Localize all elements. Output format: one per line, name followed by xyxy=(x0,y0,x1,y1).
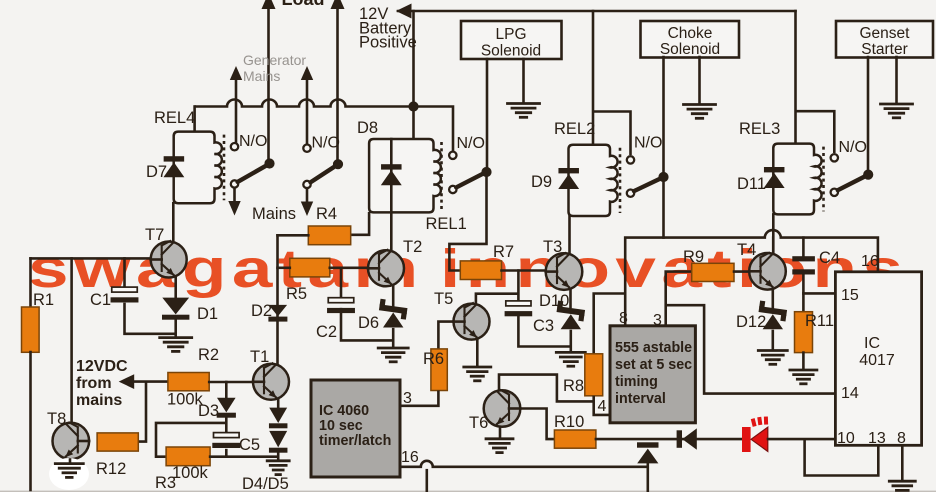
mains arrowhead 2 xyxy=(301,202,313,217)
label C1 xyxy=(90,291,111,309)
label N/O REL4-1 xyxy=(239,133,267,150)
label N/O REL1 xyxy=(457,135,485,152)
capacitor C2 xyxy=(327,298,355,313)
resistor R10 xyxy=(554,430,596,448)
wire choke to REL2 pole riser xyxy=(662,57,665,238)
svg-text:IC: IC xyxy=(864,335,880,352)
diode D2 xyxy=(268,305,287,322)
IC 4060 box xyxy=(311,380,400,477)
label R8 xyxy=(563,377,584,395)
wire R1 bottom xyxy=(29,352,32,490)
svg-text:T8: T8 xyxy=(47,410,66,428)
switch REL3 lower contact xyxy=(831,189,838,196)
IC 4017 box xyxy=(835,272,921,446)
wire genset ground stem xyxy=(895,57,898,104)
wire 12V drop to bus xyxy=(412,11,415,107)
svg-text:REL4: REL4 xyxy=(154,109,195,127)
wire R10 to LED wire xyxy=(596,438,743,441)
svg-text:4017: 4017 xyxy=(859,352,895,369)
wire 4060 pin16 line with hump xyxy=(401,461,648,467)
svg-text:R10: R10 xyxy=(554,413,584,431)
label pin 10 4017 xyxy=(837,430,855,447)
resistor R6 xyxy=(431,349,447,391)
label R1 xyxy=(33,291,54,309)
label T8 xyxy=(47,410,66,428)
wire R1 top xyxy=(29,258,32,308)
label pin 8 4017 xyxy=(897,430,906,447)
label 12VDC from mains xyxy=(76,358,128,409)
label REL4 xyxy=(154,109,195,127)
svg-text:LPG: LPG xyxy=(495,26,526,43)
label D10 xyxy=(539,292,569,310)
label D9 xyxy=(531,173,552,191)
resistor R12 xyxy=(97,433,138,451)
wire R6 bottom to 4060 pin3 xyxy=(401,391,439,406)
switch REL4-1 lower contact xyxy=(231,180,238,187)
resistor R8 xyxy=(585,354,603,396)
wire T7 emitter xyxy=(174,277,177,299)
svg-text:Mains: Mains xyxy=(243,68,280,84)
generator mains arrowhead 2 xyxy=(301,66,313,80)
zener D10 xyxy=(556,301,586,330)
wire load line 1 xyxy=(267,0,270,160)
switch REL4-2 armature xyxy=(311,167,335,183)
label T3 xyxy=(543,238,562,256)
diode D9 xyxy=(558,168,579,189)
ground R11 xyxy=(790,370,817,384)
svg-text:Choke: Choke xyxy=(668,25,713,42)
svg-text:N/O: N/O xyxy=(312,135,340,152)
wire left node horizontal xyxy=(31,257,152,260)
wire C3 bottom xyxy=(518,312,570,347)
diode D7 xyxy=(163,156,184,177)
switch REL1 N/O contact xyxy=(449,152,456,159)
wire R3 to emitter chain xyxy=(210,455,278,458)
ground genset xyxy=(881,104,913,118)
label D7 xyxy=(146,163,167,181)
svg-text:R7: R7 xyxy=(493,243,514,261)
label D1 xyxy=(197,305,218,323)
svg-text:N/O: N/O xyxy=(239,133,267,150)
12V battery arrow xyxy=(396,4,412,19)
wire D5 to ground xyxy=(277,452,280,460)
wire REL2 bottom to T3 collector xyxy=(568,216,571,255)
wire diode D8 line xyxy=(390,139,393,251)
wire C4 bottom to R11 xyxy=(802,275,805,313)
switch REL3 pole dot xyxy=(864,170,873,179)
wire REL4 bottom to T7 collector xyxy=(172,203,175,242)
wire D6 to ground xyxy=(392,329,395,347)
transistor T8 xyxy=(53,423,90,460)
diode D8 xyxy=(381,164,402,185)
transistor T7 xyxy=(151,241,187,278)
node 12V junction dot xyxy=(409,102,418,111)
label pin 3 4060 xyxy=(403,390,412,407)
svg-text:T7: T7 xyxy=(145,226,164,244)
resistor R9 xyxy=(692,263,734,281)
label pin 16 4060 xyxy=(401,449,419,466)
zener D6 xyxy=(378,299,408,328)
switch REL2 N/O contact xyxy=(627,156,634,163)
label R9 xyxy=(683,248,704,266)
wire R5 left xyxy=(278,266,290,269)
diode D1 xyxy=(162,298,189,320)
svg-text:16: 16 xyxy=(401,449,419,466)
svg-text:D2: D2 xyxy=(251,302,272,320)
svg-text:3: 3 xyxy=(653,312,662,329)
label T4 xyxy=(737,241,756,259)
diode D-pulse vertical xyxy=(637,442,659,463)
relay REL4 xyxy=(174,132,224,204)
resistor R3 xyxy=(166,447,210,466)
label pin 3 555 xyxy=(653,312,662,329)
wire D10 to ground xyxy=(569,331,572,352)
label pin 4 555 xyxy=(598,398,607,415)
label 12V Battery Positive xyxy=(359,5,417,52)
relay REL3 xyxy=(773,144,823,215)
svg-text:IC 4060: IC 4060 xyxy=(319,403,369,419)
capacitor C4 xyxy=(792,256,815,274)
switch REL2 armature xyxy=(634,179,661,192)
wire LPG to REL1 pole xyxy=(486,59,489,171)
wire hump drop to bottom xyxy=(425,470,428,492)
label R12 xyxy=(96,460,126,478)
svg-text:R6: R6 xyxy=(423,350,444,368)
diode D11 xyxy=(764,167,785,188)
wire D3 loop to R3 xyxy=(156,423,226,457)
label Generator Mains xyxy=(243,52,306,84)
wire mid rail with hump over T4 collector xyxy=(664,230,878,271)
switch REL4-2 pole dot xyxy=(333,160,342,169)
LED xyxy=(742,417,768,452)
wire load line 2 xyxy=(336,0,339,161)
diode D-series horizontal xyxy=(677,428,697,449)
wire 4017 pin8 to ground xyxy=(901,445,904,480)
svg-text:D8: D8 xyxy=(357,119,378,137)
wire D3 to C5 xyxy=(225,417,228,433)
load arrowhead 2 xyxy=(331,0,345,9)
label D11 xyxy=(737,175,766,193)
label D3 xyxy=(198,402,219,420)
svg-text:100k: 100k xyxy=(172,464,209,482)
transistor T4 xyxy=(749,253,786,290)
wire D12 to ground xyxy=(771,331,774,350)
svg-text:T1: T1 xyxy=(250,348,269,366)
capacitor C5 xyxy=(212,433,240,448)
svg-text:T6: T6 xyxy=(469,414,488,432)
Choke Solenoid box xyxy=(641,21,740,58)
svg-text:T2: T2 xyxy=(403,238,422,256)
wire T5 collector xyxy=(476,294,519,305)
svg-text:set at 5 sec: set at 5 sec xyxy=(615,357,692,373)
wire T4 emitter xyxy=(771,289,774,308)
wire C4 riser top xyxy=(802,238,805,257)
label C5 xyxy=(239,436,260,454)
svg-text:R2: R2 xyxy=(198,346,219,364)
svg-text:C2: C2 xyxy=(316,323,337,341)
label Mains xyxy=(252,205,296,223)
resistor R1 xyxy=(22,307,40,352)
wire R4 left to node xyxy=(278,234,309,237)
svg-text:3: 3 xyxy=(403,390,412,407)
svg-text:12VDC: 12VDC xyxy=(76,358,128,375)
wire C2 bottom xyxy=(341,308,393,341)
label R11 xyxy=(805,312,834,330)
ground D6-C2 xyxy=(378,348,408,362)
wire 12VDC arrow to R2 xyxy=(134,380,168,383)
svg-text:Solenoid: Solenoid xyxy=(481,43,541,60)
svg-text:D7: D7 xyxy=(146,163,167,181)
diode D4 xyxy=(269,408,288,429)
ground T6 xyxy=(486,439,513,453)
svg-text:Solenoid: Solenoid xyxy=(660,41,720,58)
label T2 xyxy=(403,238,422,256)
label pin 13 4017 xyxy=(868,430,886,447)
switch REL3 N/O contact xyxy=(831,154,838,161)
svg-text:timing: timing xyxy=(615,374,658,390)
svg-text:R9: R9 xyxy=(683,248,704,266)
wire 4017 pin13 U-link xyxy=(805,439,879,475)
svg-text:R4: R4 xyxy=(316,205,337,223)
label C3 xyxy=(533,317,554,335)
svg-text:Genset: Genset xyxy=(860,25,911,42)
svg-text:15: 15 xyxy=(841,287,859,304)
watermark swagatam innovations xyxy=(28,238,908,299)
switch REL1 lower contact xyxy=(449,186,456,193)
wire T1 emitter xyxy=(277,399,280,408)
Genset Starter box xyxy=(836,21,933,58)
wire T5 emitter xyxy=(476,339,479,367)
wire R4 right to REL1 box xyxy=(351,212,369,235)
transistor T5 xyxy=(454,303,490,340)
svg-text:D3: D3 xyxy=(198,402,219,420)
label C4 xyxy=(819,249,840,267)
label R5 xyxy=(286,285,307,303)
svg-text:D12: D12 xyxy=(736,313,766,331)
ground D4/D5 xyxy=(267,461,289,475)
svg-text:R8: R8 xyxy=(563,377,584,395)
ground choke xyxy=(684,105,716,119)
wire bus to REL4 coil xyxy=(193,107,196,133)
svg-text:R5: R5 xyxy=(286,285,307,303)
switch REL4-1 armature xyxy=(238,166,267,182)
wire D1 to ground xyxy=(174,320,177,338)
wire R9 to T4 base xyxy=(734,270,750,273)
wire T6 base to R10 xyxy=(521,409,556,440)
ground D12 xyxy=(758,351,787,365)
svg-text:C5: C5 xyxy=(239,436,260,454)
svg-text:D11: D11 xyxy=(737,175,766,193)
wire T6 emitter xyxy=(499,427,502,438)
label pin 8 555 xyxy=(619,310,628,327)
svg-text:mains: mains xyxy=(76,392,122,409)
switch REL4-1 N/O contact xyxy=(231,143,238,150)
label D6 xyxy=(358,314,379,332)
label D12 xyxy=(736,313,766,331)
wire 555 pin3 riser xyxy=(666,272,692,326)
label R7 xyxy=(493,243,514,261)
wire 555 pin3 to 4017 pin14 xyxy=(666,305,836,393)
transistor T3 xyxy=(546,253,583,290)
wire T4 collector xyxy=(772,238,775,254)
wire generator mains line 1 xyxy=(235,76,238,143)
wire R8 to pin8 node xyxy=(594,294,626,354)
wire T3 emitter xyxy=(569,289,572,307)
wire C1 riser xyxy=(123,258,126,288)
svg-text:N/O: N/O xyxy=(839,139,867,156)
zener D12 xyxy=(758,301,788,330)
wire REL1 pole to R7 xyxy=(449,172,486,271)
resistor R11 xyxy=(795,312,813,353)
wire mains arrow 2 xyxy=(306,188,309,207)
ground LPG xyxy=(508,104,540,118)
svg-text:R1: R1 xyxy=(33,291,54,309)
label REL1 xyxy=(426,215,467,233)
label D8 xyxy=(357,119,378,137)
white blob under T8 ground xyxy=(49,458,89,490)
svg-text:555 astable: 555 astable xyxy=(615,340,692,356)
label Load xyxy=(282,0,325,9)
svg-text:13: 13 xyxy=(868,430,886,447)
label R3 xyxy=(155,474,176,492)
wire below vertical diode xyxy=(646,463,649,492)
label C2 xyxy=(316,323,337,341)
switch REL1 armature xyxy=(456,174,483,188)
diode D5 xyxy=(269,431,288,453)
wire T8 emitter xyxy=(69,460,72,464)
svg-text:D9: D9 xyxy=(531,173,552,191)
svg-text:from: from xyxy=(76,375,112,392)
switch REL3 armature xyxy=(838,177,865,191)
wire 12V bus with wire-hop humps xyxy=(195,100,453,152)
label N/O REL4-2 xyxy=(312,135,340,152)
switch REL4-2 N/O contact xyxy=(303,145,310,152)
ground T5 xyxy=(464,367,491,381)
wire C3 riser xyxy=(517,271,520,302)
svg-text:Positive: Positive xyxy=(359,34,417,52)
wire genset to REL3 pole xyxy=(867,57,870,171)
svg-text:interval: interval xyxy=(615,391,666,407)
IC 555 box xyxy=(610,326,695,423)
wire C1 bottom xyxy=(125,303,176,334)
svg-text:T5: T5 xyxy=(434,290,453,308)
svg-text:D6: D6 xyxy=(358,314,379,332)
svg-text:R11: R11 xyxy=(805,312,834,330)
wire D3 drop xyxy=(225,382,228,398)
label T7 xyxy=(145,226,164,244)
svg-text:Generator: Generator xyxy=(243,52,306,68)
capacitor C3 xyxy=(505,301,533,316)
12VDC arrowhead xyxy=(119,374,135,389)
wire LPG ground stem xyxy=(522,59,525,103)
ground D10-C3 xyxy=(556,352,585,366)
resistor R2 xyxy=(168,373,209,391)
ground 4017 pin8 xyxy=(889,481,915,492)
svg-text:C1: C1 xyxy=(90,291,111,309)
wire T8 collector riser xyxy=(70,258,73,423)
svg-text:C4: C4 xyxy=(819,249,840,267)
svg-text:D10: D10 xyxy=(539,292,569,310)
svg-text:N/O: N/O xyxy=(634,135,662,152)
wire REL2 supply branch to N/O xyxy=(593,112,631,156)
resistor R5 xyxy=(290,258,330,277)
svg-text:REL3: REL3 xyxy=(739,120,780,138)
wire bus to REL1 box top xyxy=(412,107,415,141)
wire junction down to R12 xyxy=(139,382,146,442)
wire T2 emitter xyxy=(392,286,395,307)
svg-text:timer/latch: timer/latch xyxy=(319,433,391,449)
svg-text:REL2: REL2 xyxy=(554,120,595,138)
mains arrowhead 1 xyxy=(228,201,240,216)
label R10 xyxy=(554,413,584,431)
label T5 xyxy=(434,290,453,308)
load arrowhead 1 xyxy=(262,0,276,9)
svg-text:REL1: REL1 xyxy=(426,215,467,233)
svg-text:D4/D5: D4/D5 xyxy=(242,475,289,492)
label R4-switch xyxy=(316,205,337,223)
label R2 xyxy=(198,346,219,364)
generator mains arrowhead 1 xyxy=(230,66,242,80)
svg-text:T3: T3 xyxy=(543,238,562,256)
svg-text:Load: Load xyxy=(282,0,325,9)
svg-text:D1: D1 xyxy=(197,305,218,323)
wire R7 to T3 base xyxy=(502,269,547,272)
svg-text:14: 14 xyxy=(841,385,859,402)
svg-text:Starter: Starter xyxy=(861,41,908,58)
label T6 xyxy=(469,414,488,432)
switch REL4-2 lower contact xyxy=(303,181,310,188)
switch REL1 pole dot xyxy=(482,167,491,176)
svg-text:T4: T4 xyxy=(737,241,756,259)
label REL3 xyxy=(739,120,780,138)
label R6 xyxy=(423,350,444,368)
svg-text:8: 8 xyxy=(619,310,628,327)
wire top 12V rail xyxy=(398,11,796,144)
wire generator mains line 2 xyxy=(306,76,309,145)
wire pin15 link xyxy=(803,292,835,295)
switch REL2 lower contact xyxy=(627,190,634,197)
svg-text:10: 10 xyxy=(837,430,855,447)
ground D1-C1 xyxy=(160,338,192,352)
label 100k R3 xyxy=(172,464,209,482)
svg-text:C3: C3 xyxy=(533,317,554,335)
wire C5 bottom xyxy=(225,450,228,457)
wire R2 to T1 base xyxy=(209,381,253,384)
capacitor C1 xyxy=(111,287,139,302)
diode D3 xyxy=(217,398,236,418)
label pin 16 4017 xyxy=(861,253,879,270)
transistor T6 xyxy=(484,390,521,427)
LPG Solenoid box xyxy=(461,21,562,60)
svg-text:Mains: Mains xyxy=(252,205,296,223)
label T1 xyxy=(250,348,269,366)
label pin 14 4017 xyxy=(841,385,859,402)
resistor R7 xyxy=(460,261,501,280)
svg-text:N/O: N/O xyxy=(457,135,485,152)
wire T1 collector xyxy=(276,235,279,364)
label REL2 xyxy=(554,120,595,138)
wire REL3 supply branch to N/O xyxy=(796,111,835,153)
wire choke ground stem xyxy=(698,57,701,104)
wire LED to 4017 pin10 xyxy=(768,438,835,441)
label pin 15 4017 xyxy=(841,287,859,304)
wire R5 to T2 base xyxy=(330,266,369,269)
wire 555 pin4 link xyxy=(594,396,611,415)
wire T6 collector to 555 pin4 path xyxy=(499,375,594,402)
wire C2 riser xyxy=(340,268,343,298)
label N/O REL2 xyxy=(634,135,662,152)
wire REL2 supply drop xyxy=(592,11,595,146)
